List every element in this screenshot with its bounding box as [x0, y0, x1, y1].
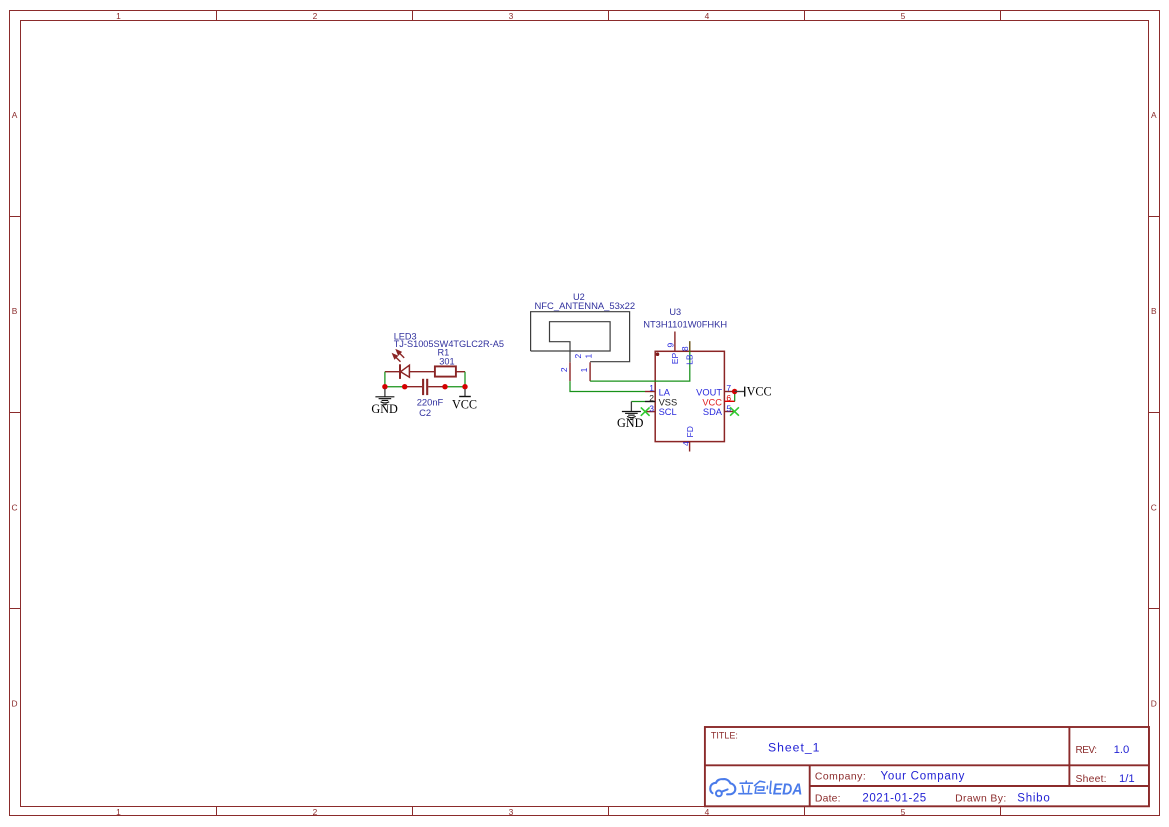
svg-text:1: 1 — [116, 11, 121, 21]
svg-text:Sheet_1: Sheet_1 — [768, 741, 820, 755]
ground GND (U3) — [617, 402, 644, 430]
LED3 emission arrows — [393, 350, 404, 362]
wire: antenna pin1 to U3 LB (green) — [590, 341, 690, 381]
svg-text:Your Company: Your Company — [881, 771, 966, 783]
wire: right vertical (green) — [464, 372, 466, 387]
capacitor C2 plates — [422, 379, 424, 395]
svg-text:1: 1 — [649, 383, 654, 393]
pin 9 EP stub — [674, 332, 676, 352]
logo text 立创 (drawn strokes) — [739, 781, 771, 794]
svg-text:REV:: REV: — [1076, 745, 1097, 756]
title row divider — [705, 764, 1149, 766]
svg-text:NFC_ANTENNA_53x22: NFC_ANTENNA_53x22 — [534, 301, 635, 312]
svg-text:SDA: SDA — [703, 407, 723, 417]
wire: bottom rail left (green) — [385, 386, 405, 388]
svg-text:NT3H1101W0FHKH: NT3H1101W0FHKH — [643, 319, 727, 329]
svg-text:FD: FD — [685, 426, 695, 437]
svg-text:B: B — [1151, 306, 1157, 316]
wire: LED to R1 (maroon) — [410, 371, 435, 373]
no-connect X at pin 3 SCL — [641, 407, 650, 415]
svg-text:GND: GND — [371, 402, 398, 416]
svg-text:D: D — [1151, 698, 1157, 708]
bottom ruler ticks — [217, 807, 1001, 816]
svg-text:5: 5 — [901, 11, 906, 21]
svg-text:GND: GND — [617, 416, 644, 430]
svg-text:A: A — [1151, 110, 1157, 120]
svg-text:3: 3 — [509, 807, 514, 817]
right ruler ticks — [1149, 217, 1160, 609]
svg-text:4: 4 — [681, 441, 691, 446]
svg-text:301: 301 — [439, 357, 454, 367]
svg-text:1.0: 1.0 — [1114, 744, 1130, 756]
top ruler ticks — [217, 11, 1001, 21]
svg-text:B: B — [12, 306, 18, 316]
svg-text:2: 2 — [559, 367, 569, 372]
company/date divider — [810, 785, 1149, 787]
svg-text:VCC: VCC — [702, 398, 722, 408]
svg-text:3: 3 — [649, 403, 654, 413]
junction dot at VOUT — [732, 389, 737, 394]
svg-text:Date:: Date: — [815, 794, 841, 805]
pin 2 VSS stub (black) — [645, 401, 655, 403]
svg-text:4: 4 — [705, 807, 710, 817]
svg-text:2: 2 — [313, 807, 318, 817]
power flag VCC (LED circuit) — [452, 389, 477, 411]
chip U3 pin1 marker dot — [656, 352, 660, 356]
svg-text:C: C — [11, 502, 17, 512]
chip U3 body — [655, 351, 724, 441]
power flag VCC (U3) — [745, 385, 772, 399]
svg-text:VOUT: VOUT — [696, 388, 722, 398]
svg-text:VCC: VCC — [747, 385, 772, 399]
svg-text:1/1: 1/1 — [1119, 773, 1135, 785]
pin 6 VCC stub (red) — [724, 400, 735, 402]
logo LCEDA cloud — [710, 779, 735, 796]
wire: pin6 to pin7 net (green) — [734, 392, 736, 402]
antenna pin 2 stub — [569, 362, 571, 381]
svg-text:5: 5 — [901, 807, 906, 817]
svg-text:1: 1 — [583, 354, 593, 359]
wire: R1 right lead (maroon) — [456, 371, 466, 373]
antenna U2 coil — [531, 312, 630, 363]
svg-text:D: D — [11, 698, 17, 708]
left ruler ticks — [10, 217, 21, 609]
svg-text:U3: U3 — [669, 307, 681, 317]
svg-text:EDA: EDA — [773, 782, 803, 799]
svg-text:Sheet:: Sheet: — [1076, 774, 1107, 785]
svg-text:LA: LA — [659, 388, 671, 398]
wire: VSS to GND (green) — [631, 401, 645, 403]
svg-text:Company:: Company: — [815, 772, 866, 783]
svg-text:2: 2 — [313, 11, 318, 21]
pin 8 LB stub — [689, 341, 691, 351]
capacitor C2 leads (maroon) — [405, 386, 422, 388]
svg-text:C2: C2 — [419, 407, 431, 418]
svg-text:Drawn By:: Drawn By: — [955, 794, 1007, 805]
wire: left vertical (green) — [384, 372, 386, 387]
svg-text:2021-01-25: 2021-01-25 — [862, 793, 926, 805]
svg-text:4: 4 — [705, 11, 710, 21]
antenna pin 1 stub — [589, 362, 591, 381]
svg-text:2: 2 — [573, 354, 583, 359]
junction dots on bottom rail — [382, 384, 387, 389]
wire: antenna pin2 to U3 LA (green) — [570, 381, 645, 391]
title block outline — [705, 727, 1149, 806]
svg-text:7: 7 — [726, 383, 731, 393]
svg-text:9: 9 — [665, 342, 675, 347]
resistor R1 — [435, 366, 456, 376]
wire: VOUT to VCC flag (dark) — [735, 391, 745, 393]
LED3 diode symbol — [400, 364, 409, 379]
pin 3 SCL stub — [645, 411, 655, 413]
svg-text:C: C — [1151, 502, 1157, 512]
svg-text:LB: LB — [684, 354, 694, 365]
rev column divider — [1068, 727, 1070, 786]
svg-text:Shibo: Shibo — [1017, 793, 1050, 805]
no-connect X at pin 5 SDA — [730, 407, 739, 415]
svg-text:1: 1 — [579, 367, 589, 372]
svg-text:6: 6 — [726, 393, 731, 403]
logo cell divider — [809, 765, 811, 806]
wire: bottom rail right (green) — [445, 386, 465, 388]
svg-text:1: 1 — [116, 807, 121, 817]
svg-text:8: 8 — [680, 346, 690, 351]
svg-text:SCL: SCL — [659, 407, 677, 417]
svg-text:VCC: VCC — [452, 397, 477, 411]
svg-text:3: 3 — [509, 11, 514, 21]
svg-text:TITLE:: TITLE: — [711, 731, 738, 741]
pin 4 FD stub — [689, 442, 691, 452]
pin 5 SDA stub — [724, 411, 734, 413]
pin 7 VOUT stub — [724, 391, 734, 393]
wire: LED left lead (maroon) — [385, 371, 400, 373]
pin 1 LA stub — [645, 391, 655, 393]
svg-text:2: 2 — [649, 393, 654, 403]
svg-text:VSS: VSS — [659, 398, 678, 408]
svg-text:A: A — [12, 110, 18, 120]
ground GND (LED circuit) — [371, 389, 398, 416]
svg-text:EP: EP — [670, 353, 680, 365]
